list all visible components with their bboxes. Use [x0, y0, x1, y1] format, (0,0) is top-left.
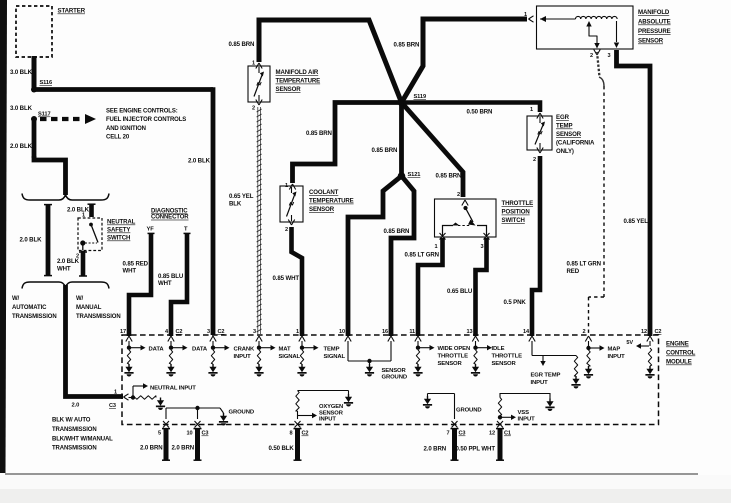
value label 0.85 BLU WHT — [158, 273, 184, 287]
svg-text:C1: C1 — [504, 431, 511, 437]
svg-text:MAP: MAP — [608, 346, 621, 352]
svg-text:THROTTLE: THROTTLE — [502, 200, 534, 207]
svg-text:S116: S116 — [40, 80, 53, 86]
ECM pin 12 C2 — [641, 329, 661, 342]
ECM pin 3 (MAT) — [253, 329, 262, 342]
svg-text:S117: S117 — [38, 112, 51, 118]
svg-text:5V: 5V — [626, 340, 633, 346]
svg-text:SENSOR: SENSOR — [438, 361, 463, 367]
starter motor (dashed box) — [16, 6, 52, 57]
ECM pin 4 DATA input resistor and ground — [166, 341, 207, 377]
value label 3.0 BLK — [10, 69, 33, 76]
svg-text:C3: C3 — [202, 431, 209, 437]
value label 2.0 BLK WHT — [57, 258, 80, 272]
svg-text:CONTROL: CONTROL — [666, 350, 696, 357]
svg-text:C2: C2 — [655, 329, 662, 335]
brace upper (transmission options) — [22, 194, 109, 201]
MAP sensor internal potentiometer — [540, 16, 619, 49]
svg-text:THROTTLE: THROTTLE — [438, 353, 469, 359]
svg-text:WHT: WHT — [57, 265, 71, 272]
ECM pin 5 and 2.0 BRN ground wire — [140, 421, 170, 461]
value label 0.85 LT GRN RED — [567, 261, 601, 276]
svg-text:EGR: EGR — [556, 114, 570, 121]
svg-text:2.0 BLK: 2.0 BLK — [67, 207, 90, 214]
svg-text:SENSOR: SENSOR — [319, 410, 344, 416]
svg-text:SENSOR: SENSOR — [492, 361, 517, 367]
engine control module U1 (dashed box) — [122, 335, 659, 425]
svg-text:SENSOR: SENSOR — [382, 368, 407, 374]
wire to ECM pin 1 C3 — [66, 285, 124, 397]
svg-text:CELL 20: CELL 20 — [106, 135, 130, 141]
svg-text:MANIFOLD AIR: MANIFOLD AIR — [276, 69, 319, 76]
label NEUTRAL SAFETY SWITCH — [107, 219, 136, 242]
ECM pin 16 — [382, 329, 394, 342]
svg-text:SAFETY: SAFETY — [107, 227, 130, 234]
svg-text:SENSOR: SENSOR — [556, 131, 582, 138]
svg-text:TRANSMISSION: TRANSMISSION — [52, 446, 97, 452]
svg-text:ABSOLUTE: ABSOLUTE — [638, 19, 671, 26]
svg-text:SWITCH: SWITCH — [107, 235, 130, 242]
svg-text:11: 11 — [409, 329, 415, 335]
svg-text:0.85 WHT: 0.85 WHT — [273, 275, 300, 282]
note W/ AUTOMATIC TRANSMISSION — [12, 296, 57, 320]
ECM pin 8 C2 and 0.50 BLK oxygen sensor wire — [269, 421, 309, 461]
svg-text:INPUT: INPUT — [518, 417, 536, 423]
pin 2 MAT sensor — [252, 100, 262, 112]
svg-text:3: 3 — [207, 329, 210, 335]
ECM pin 10 — [339, 329, 351, 342]
svg-text:BLK: BLK — [229, 200, 242, 207]
wire 0.85 BRN S119 to MAP sensor pin 1 — [402, 19, 528, 103]
value label 0.65 BLU — [447, 288, 473, 295]
pin 2 EGR temp sensor — [533, 148, 543, 164]
svg-text:0.85 BLU: 0.85 BLU — [158, 273, 184, 280]
svg-text:1: 1 — [296, 329, 299, 335]
ECM pin 1 — [296, 329, 305, 342]
svg-text:SIGNAL: SIGNAL — [324, 354, 346, 360]
svg-text:2.0 BRN: 2.0 BRN — [424, 446, 447, 453]
ECM neutral input branch — [129, 383, 197, 410]
label EGR TEMP SENSOR (CALIFORNIA ONLY) — [556, 114, 595, 155]
svg-text:BLK/WHT W/MANUAL: BLK/WHT W/MANUAL — [52, 436, 113, 442]
svg-text:AND IGNITION: AND IGNITION — [106, 126, 146, 132]
svg-text:10: 10 — [187, 431, 193, 437]
label ENGINE CONTROL MODULE — [666, 341, 696, 366]
svg-text:TRANSMISSION: TRANSMISSION — [12, 314, 57, 320]
svg-text:NEUTRAL INPUT: NEUTRAL INPUT — [150, 385, 196, 391]
svg-text:OXYGEN: OXYGEN — [319, 404, 343, 410]
svg-text:8: 8 — [290, 431, 293, 437]
svg-text:INPUT: INPUT — [234, 354, 252, 360]
svg-text:0.85 BRN: 0.85 BRN — [384, 228, 410, 235]
ECM pin 3 C2 — [207, 329, 224, 342]
pin 1 coolant sensor — [285, 183, 296, 190]
splice S119 — [398, 94, 426, 106]
value label 0.85 YEL — [624, 218, 649, 225]
ECM pin 3 MAT SIGNAL resistor and ground — [254, 341, 300, 376]
label COOLANT TEMPERATURE SENSOR — [309, 189, 354, 213]
terminal T — [184, 227, 188, 233]
svg-text:S119: S119 — [414, 94, 427, 100]
svg-text:WIDE OPEN: WIDE OPEN — [438, 346, 471, 352]
svg-text:WHT: WHT — [123, 268, 137, 275]
svg-text:FUEL INJECTOR CONTROLS: FUEL INJECTOR CONTROLS — [106, 117, 186, 123]
wire 0.85 BLU WHT from terminal T to ECM pin 4 — [171, 233, 191, 336]
label MANIFOLD ABSOLUTE PRESSURE SENSOR — [638, 9, 671, 45]
wire 0.65 YEL BLK MAT sensor pin 2 to ECM pin 3 — [257, 107, 262, 334]
wire 3.0 BLK starter to S116 — [32, 56, 37, 90]
svg-text:MODULE: MODULE — [666, 359, 692, 366]
svg-text:IDLE: IDLE — [492, 346, 505, 352]
ECM pin 13 — [467, 329, 479, 342]
pin 3 TPS — [481, 244, 484, 250]
svg-text:W/: W/ — [12, 296, 20, 302]
ECM pin 4 C2 — [165, 329, 182, 342]
svg-text:2: 2 — [533, 157, 536, 163]
svg-text:GROUND: GROUND — [382, 375, 407, 381]
svg-text:2: 2 — [285, 227, 288, 233]
wire 0.85 BRN MAT sensor pin 1 to splice S119 — [259, 20, 402, 103]
value label 2.0 — [72, 403, 80, 409]
ECM pin 17 DATA input resistor and ground — [124, 341, 164, 376]
coolant temperature sensor (box) — [280, 186, 303, 222]
svg-text:0.85 RED: 0.85 RED — [123, 260, 149, 267]
value label 2.0 BLK — [10, 143, 33, 150]
wire stub into neutral safety switch pin 1 — [88, 203, 96, 217]
value label 0.50 BRN — [467, 109, 493, 116]
svg-text:TRANSMISSION: TRANSMISSION — [76, 314, 121, 320]
svg-text:0.85 YEL: 0.85 YEL — [624, 218, 649, 225]
pin 1 neutral safety switch — [82, 213, 85, 219]
svg-text:S121: S121 — [408, 172, 421, 178]
brace lower (transmission options) — [22, 282, 109, 289]
svg-text:CONNECTOR: CONNECTOR — [151, 215, 189, 221]
pin 2 coolant sensor — [285, 220, 295, 234]
svg-text:SIGNAL: SIGNAL — [279, 354, 301, 360]
svg-text:0.85 LT GRN: 0.85 LT GRN — [405, 252, 439, 259]
value label 0.5 PNK — [504, 299, 527, 306]
value label 0.85 LT GRN — [405, 252, 439, 259]
svg-text:0.85 BRN: 0.85 BRN — [436, 173, 462, 180]
pin 2 MAP sensor — [590, 50, 611, 60]
ECM oxygen sensor input branch — [296, 391, 353, 423]
value label 0.85 BRN — [306, 130, 332, 137]
svg-text:2.0 BLK: 2.0 BLK — [20, 237, 43, 244]
svg-text:NEUTRAL: NEUTRAL — [107, 219, 136, 226]
svg-text:1: 1 — [530, 107, 533, 113]
svg-text:INPUT: INPUT — [531, 380, 549, 386]
value label 2.0 BLK (switch top) — [67, 207, 90, 214]
ECM ground branch to pin 7 C3 — [423, 394, 482, 420]
splice S121 — [398, 172, 421, 180]
ECM pin 1 C3 (left edge) — [109, 390, 129, 410]
label STARTER — [58, 8, 86, 15]
svg-text:0.50 BLK: 0.50 BLK — [269, 445, 295, 452]
ECM pin 13 IDLE THROTTLE SENSOR resistor and ground — [471, 341, 522, 376]
svg-text:RED: RED — [567, 268, 580, 275]
svg-text:3: 3 — [253, 329, 256, 335]
svg-text:1: 1 — [435, 244, 438, 250]
label DIAGNOSTIC CONNECTOR — [151, 209, 189, 221]
label MANIFOLD AIR TEMPERATURE SENSOR — [276, 69, 321, 93]
value label 0.85 BRN — [372, 147, 398, 154]
wire 0.85 BRN S121 to ECM pin 10 — [348, 176, 402, 336]
svg-text:2.0: 2.0 — [72, 403, 80, 409]
svg-text:1: 1 — [524, 12, 527, 18]
wire 0.50 BRN S119 to EGR temp sensor pin 1 — [402, 103, 541, 113]
wire 0.85 RED WHT from terminal YF to ECM pin 17 — [129, 233, 155, 336]
wire 0.85 WHT coolant pin 2 to ECM pin 1 — [292, 227, 303, 336]
wire 0.85 LT GRN RED MAP pin 2 (striped segment) — [597, 52, 604, 86]
svg-text:3: 3 — [608, 53, 611, 59]
svg-text:12: 12 — [489, 431, 495, 437]
wire 0.5 PNK EGR pin 2 to ECM pin 14 — [532, 156, 540, 336]
svg-text:(CALIFORNIA: (CALIFORNIA — [556, 140, 595, 147]
svg-text:C2: C2 — [176, 329, 183, 335]
svg-text:GROUND: GROUND — [456, 408, 481, 414]
wire 2.0 BLK vertical run to ECM pin 3 C2 — [211, 87, 216, 335]
svg-text:STARTER: STARTER — [58, 8, 86, 15]
ECM pin 3 CRANK INPUT resistor and ground — [208, 341, 255, 377]
wire 0.65 BLU TPS pin 3 to ECM pin 13 — [476, 238, 487, 336]
ECM pin 11 — [409, 329, 421, 342]
ECM pin 14 — [523, 329, 535, 342]
ECM pin 12 C1 and 0.50 PPL WHT VSS wire — [456, 421, 511, 461]
svg-text:0.85 LT GRN: 0.85 LT GRN — [567, 261, 601, 268]
svg-text:DATA: DATA — [149, 346, 165, 352]
wire 0.85 BRN S119 to throttle position switch pin 2 — [402, 103, 464, 198]
svg-text:W/: W/ — [76, 296, 84, 302]
svg-text:BLK W/ AUTO: BLK W/ AUTO — [52, 418, 91, 424]
svg-text:GROUND: GROUND — [229, 410, 254, 416]
svg-text:SWITCH: SWITCH — [502, 217, 525, 224]
svg-text:MANUAL: MANUAL — [76, 305, 102, 311]
wire 2.0 BLK S117 down — [32, 119, 37, 158]
svg-text:0.50 PPL WHT: 0.50 PPL WHT — [456, 446, 496, 453]
svg-text:C3: C3 — [109, 403, 116, 409]
pin 1 MAT sensor — [252, 61, 262, 69]
manifold absolute pressure sensor (box) — [537, 6, 634, 49]
svg-text:MAT: MAT — [279, 346, 291, 352]
splice S117 — [31, 112, 51, 123]
value label 2.0 BLK (automatic) — [20, 237, 43, 244]
wire 2.0 BLK WHT from switch pin 2 — [79, 251, 87, 277]
ECM pin 1 TEMP SIGNAL resistor and ground — [297, 341, 345, 376]
wire 0.85 BRN S119 to splice S121 — [399, 103, 404, 177]
svg-text:5: 5 — [158, 431, 161, 437]
svg-text:3.0 BLK: 3.0 BLK — [10, 69, 33, 76]
svg-text:0.85 BRN: 0.85 BRN — [306, 130, 332, 137]
ECM pin 12 5V reference and ground — [626, 340, 654, 378]
svg-text:14: 14 — [523, 329, 530, 335]
svg-text:2.0 BLK: 2.0 BLK — [188, 158, 211, 165]
pin 2 neutral safety switch — [76, 254, 79, 260]
svg-text:T: T — [184, 227, 188, 233]
svg-text:2.0 BLK: 2.0 BLK — [10, 143, 33, 150]
svg-text:ONLY): ONLY) — [556, 148, 574, 155]
svg-text:C2: C2 — [218, 329, 225, 335]
svg-text:1: 1 — [114, 390, 117, 396]
svg-text:YF: YF — [147, 227, 155, 233]
ECM pin 2 — [583, 329, 592, 342]
ECM pin 10 C3 and 2.0 BRN ground wire — [172, 421, 209, 461]
wire 0.85 BRN S119 to coolant sensor pin 1 — [293, 103, 402, 184]
value label 0.65 YEL BLK — [229, 193, 254, 207]
splice S116 — [31, 80, 52, 93]
ECM pin 14 EGR TEMP INPUT branch — [531, 341, 581, 388]
svg-text:AUTOMATIC: AUTOMATIC — [12, 305, 47, 311]
svg-text:2: 2 — [590, 53, 593, 59]
pin 1 EGR temp sensor — [530, 107, 543, 119]
dashed wire to fuel injector controls — [40, 114, 96, 124]
svg-text:TEMPERATURE: TEMPERATURE — [309, 198, 354, 205]
svg-text:3: 3 — [481, 244, 484, 250]
wire 2.0 BLK automatic transmission option — [44, 204, 52, 277]
svg-text:0.85 BRN: 0.85 BRN — [394, 42, 420, 49]
svg-text:2.0 BRN: 2.0 BRN — [172, 445, 195, 452]
pin 1 TPS — [435, 244, 438, 250]
note W/ MANUAL TRANSMISSION — [76, 296, 121, 320]
wire 2.0 BLK S116 to ECM pin 3 C2 (horizontal) — [32, 87, 213, 92]
svg-text:0.50 BRN: 0.50 BRN — [467, 109, 493, 116]
svg-text:ENGINE: ENGINE — [666, 341, 689, 348]
svg-text:2: 2 — [252, 106, 255, 112]
ECM ground bus to pins 5 and 10 C3 — [166, 406, 254, 426]
ECM pin 17 — [120, 329, 132, 342]
value label 0.85 WHT — [273, 275, 300, 282]
svg-text:17: 17 — [120, 329, 126, 335]
wire 0.85 LT GRN TPS pin 1 to ECM pin 11 — [418, 238, 443, 336]
svg-text:THROTTLE: THROTTLE — [492, 353, 523, 359]
svg-text:TRANSMISSION: TRANSMISSION — [52, 427, 97, 433]
svg-text:13: 13 — [467, 329, 473, 335]
TPS internal contacts — [440, 206, 490, 240]
svg-text:2: 2 — [457, 192, 460, 198]
value label 3.0 BLK — [10, 105, 33, 112]
svg-text:0.65 YEL: 0.65 YEL — [229, 193, 254, 200]
svg-text:INPUT: INPUT — [319, 417, 336, 423]
svg-text:SENSOR: SENSOR — [276, 86, 302, 93]
svg-text:2: 2 — [583, 329, 586, 335]
svg-text:2.0 BLK: 2.0 BLK — [57, 258, 80, 265]
svg-text:0.65 BLU: 0.65 BLU — [447, 288, 473, 295]
wire jog to transmission options — [34, 156, 66, 195]
svg-text:DATA: DATA — [192, 346, 208, 352]
svg-text:C3: C3 — [459, 431, 466, 437]
EGR temperature sensor (box) — [527, 116, 552, 150]
wire 0.85 LT GRN RED (California) dashed run to ECM pin 2 — [589, 86, 605, 336]
value label 2.0 BLK (right run) — [188, 158, 211, 165]
value label 0.85 BRN — [436, 173, 462, 180]
value label 0.85 BRN — [229, 41, 255, 48]
svg-text:3.0 BLK: 3.0 BLK — [10, 105, 33, 112]
value label 0.85 RED WHT — [123, 260, 149, 274]
ECM pin 11 WIDE OPEN THROTTLE SENSOR resistor and ground — [413, 341, 470, 376]
note BLK W/ AUTO TRANSMISSION — [52, 418, 113, 452]
svg-text:INPUT: INPUT — [608, 354, 626, 360]
svg-text:CRANK: CRANK — [234, 346, 256, 352]
svg-text:0.85 BRN: 0.85 BRN — [372, 147, 398, 154]
throttle position switch (box) — [435, 199, 497, 237]
ECM sensor ground bus and ground symbol — [348, 341, 407, 381]
svg-text:SENSOR: SENSOR — [638, 38, 664, 45]
ECM pin 7 C3 and 2.0 BRN ground wire — [424, 421, 466, 461]
value label 0.85 BRN — [384, 228, 410, 235]
value label 0.85 BRN — [394, 42, 420, 49]
svg-text:12: 12 — [641, 329, 647, 335]
svg-text:TEMP: TEMP — [556, 123, 573, 130]
switch contacts and blade — [80, 223, 98, 251]
svg-text:POSITION: POSITION — [502, 209, 530, 216]
svg-text:0.85 BRN: 0.85 BRN — [229, 41, 255, 48]
terminal YF — [147, 227, 155, 233]
manifold air temperature sensor B1 (box) — [248, 66, 270, 102]
svg-text:0.5 PNK: 0.5 PNK — [504, 299, 527, 306]
svg-text:WHT: WHT — [158, 280, 172, 287]
wire 0.85 YEL MAP pin 3 to ECM pin 12 C2 — [617, 50, 651, 336]
label THROTTLE POSITION SWITCH — [502, 200, 534, 224]
svg-text:SEE ENGINE CONTROLS:: SEE ENGINE CONTROLS: — [106, 109, 178, 115]
ECM pin 2 MAP INPUT resistor and ground — [584, 341, 625, 378]
ECM VSS input branch to pin 12 C1 — [498, 394, 555, 423]
pin 1 MAP sensor — [524, 12, 534, 22]
neutral safety switch SW1 (dashed box) — [78, 218, 102, 251]
note SEE ENGINE CONTROLS — [106, 109, 186, 141]
svg-text:7: 7 — [447, 431, 450, 437]
svg-text:VSS: VSS — [518, 410, 530, 416]
svg-text:TEMPERATURE: TEMPERATURE — [276, 78, 321, 85]
svg-text:EGR TEMP: EGR TEMP — [531, 373, 561, 379]
wire 0.85 BRN S121 to ECM pin 16 — [391, 176, 414, 336]
svg-text:C2: C2 — [302, 431, 309, 437]
pin 2 throttle position switch — [457, 192, 468, 206]
svg-text:PRESSURE: PRESSURE — [638, 28, 671, 35]
svg-text:TEMP: TEMP — [324, 346, 340, 352]
svg-text:COOLANT: COOLANT — [309, 189, 339, 196]
svg-text:10: 10 — [339, 329, 345, 335]
svg-text:MANIFOLD: MANIFOLD — [638, 9, 670, 16]
svg-text:SENSOR: SENSOR — [309, 206, 335, 213]
svg-text:DIAGNOSTIC: DIAGNOSTIC — [151, 209, 188, 215]
svg-text:2.0 BRN: 2.0 BRN — [140, 445, 163, 452]
svg-text:16: 16 — [382, 329, 388, 335]
